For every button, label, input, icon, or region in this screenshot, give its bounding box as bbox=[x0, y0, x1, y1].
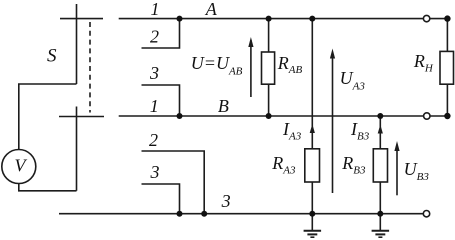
node dot 3-RB3 bbox=[377, 211, 383, 217]
svg-text:3: 3 bbox=[221, 191, 231, 211]
wire line A bbox=[119, 18, 448, 20]
node dot A-1 bbox=[177, 16, 183, 22]
svg-text:IA3: IA3 bbox=[282, 119, 302, 142]
node dot B-RH bbox=[444, 113, 450, 119]
svg-text:2: 2 bbox=[150, 27, 159, 47]
svg-text:RA3: RA3 bbox=[271, 153, 296, 177]
resistor R_A3 bbox=[305, 149, 320, 182]
svg-text:3: 3 bbox=[150, 162, 160, 182]
node dot 3-RA3 bbox=[309, 211, 315, 217]
node dot 3-a bbox=[177, 211, 183, 217]
node dot A-RH bbox=[444, 15, 450, 21]
svg-text:RH: RH bbox=[413, 51, 434, 74]
switch S bottom contact bar bbox=[59, 116, 104, 118]
svg-text:RB3: RB3 bbox=[341, 153, 366, 177]
ground symbol right bbox=[372, 214, 390, 238]
wire contact 2 to node A bbox=[142, 19, 180, 48]
arrow U_A3 bbox=[330, 49, 335, 194]
node dot 3-b bbox=[201, 211, 207, 217]
wire contact 3 (lower) to line 3 bbox=[142, 184, 180, 214]
svg-text:S: S bbox=[47, 46, 57, 67]
switch S linkage (dashed) bbox=[89, 22, 91, 113]
terminal B (open) bbox=[424, 113, 430, 119]
switch S top contact bar bbox=[60, 18, 103, 20]
wire branch A3 upper bbox=[311, 19, 313, 149]
svg-text:3: 3 bbox=[149, 63, 159, 83]
wire neutral line 3 (bottom) bbox=[59, 213, 423, 215]
arrowhead I_B3 bbox=[378, 125, 383, 134]
wire switch to voltmeter top bbox=[19, 84, 77, 150]
wire branch AB lower bbox=[268, 84, 270, 116]
svg-text:UA3: UA3 bbox=[340, 68, 366, 92]
wire branch RH lower bbox=[446, 84, 448, 116]
node dot A-RAB bbox=[266, 16, 272, 22]
svg-text:2: 2 bbox=[149, 130, 158, 150]
resistor R_B3 bbox=[373, 149, 387, 182]
arrowhead I_A3 bbox=[310, 124, 315, 133]
node dot B-RAB bbox=[266, 113, 272, 119]
arrow U_B3 bbox=[394, 141, 399, 195]
arrow U_AB bbox=[248, 37, 253, 97]
wire branch A3 lower bbox=[311, 182, 313, 214]
wire branch RH upper bbox=[446, 19, 448, 52]
terminal A (open) bbox=[423, 15, 429, 21]
node dot A-RA3 bbox=[309, 16, 315, 22]
wire contact 3 to line B bbox=[142, 85, 180, 116]
node dot B-RB3 bbox=[377, 113, 383, 119]
ground symbol left bbox=[304, 214, 322, 238]
resistor R_AB bbox=[262, 52, 275, 84]
wire branch B3 upper bbox=[379, 116, 381, 149]
svg-text:UB3: UB3 bbox=[404, 159, 430, 183]
switch S bottom blade bbox=[76, 107, 78, 191]
wire voltmeter bottom to switch bbox=[19, 184, 77, 191]
svg-text:IB3: IB3 bbox=[350, 119, 370, 142]
wire branch B3 lower bbox=[379, 182, 381, 214]
svg-text:RAB: RAB bbox=[277, 53, 303, 76]
node dot B-1 bbox=[177, 113, 183, 119]
wire line B bbox=[119, 115, 448, 117]
svg-text:A: A bbox=[205, 0, 218, 19]
wire contact 2 (lower) to line 3 bbox=[142, 151, 205, 214]
svg-text:1: 1 bbox=[151, 0, 160, 19]
voltmeter V bbox=[2, 150, 36, 184]
svg-text:B: B bbox=[218, 96, 229, 116]
svg-text:1: 1 bbox=[150, 96, 159, 116]
resistor R_H bbox=[440, 51, 454, 84]
svg-text:U=UAB: U=UAB bbox=[191, 53, 243, 77]
wire branch AB upper bbox=[268, 19, 270, 52]
switch S top blade bbox=[76, 4, 78, 84]
terminal 3 (open) bbox=[423, 211, 429, 217]
